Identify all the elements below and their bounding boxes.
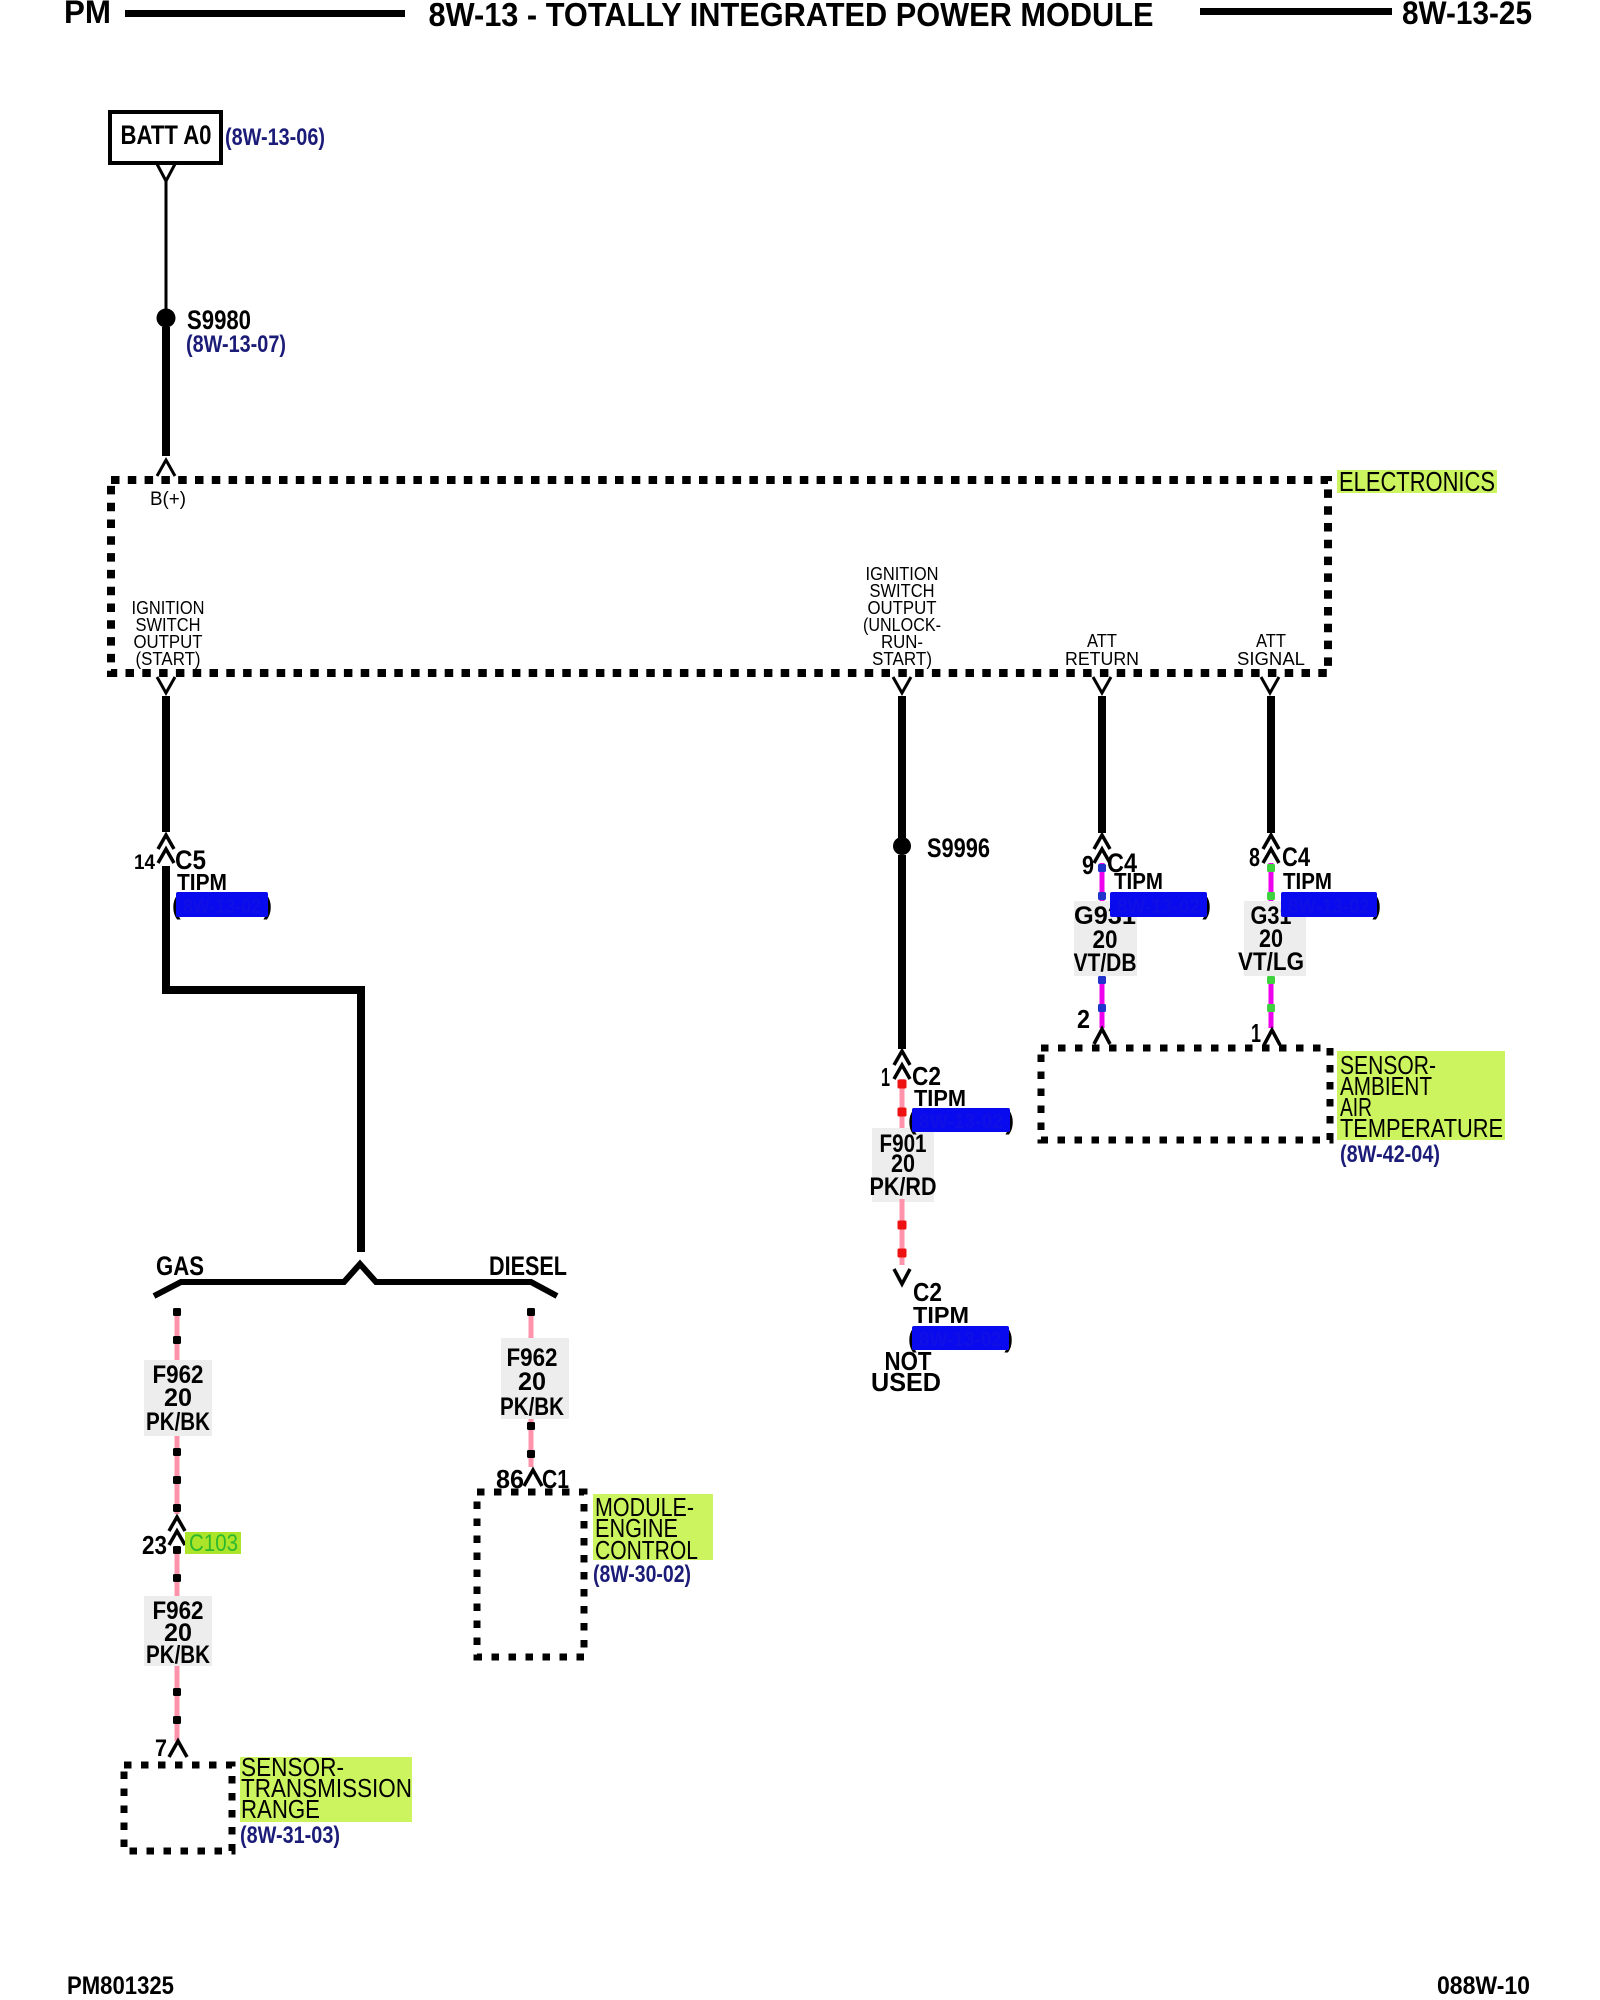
svg-text:1: 1 [881,1062,890,1092]
svg-text:8W-13 - TOTALLY INTEGRATED POW: 8W-13 - TOTALLY INTEGRATED POWER MODULE [429,0,1154,33]
svg-text:PK/BK: PK/BK [146,1408,210,1436]
svg-text:PK/RD: PK/RD [870,1173,937,1201]
svg-text:RETURN: RETURN [1065,649,1139,669]
svg-text:ELECTRONICS: ELECTRONICS [1339,466,1495,497]
svg-text:TEMPERATURE: TEMPERATURE [1340,1113,1503,1143]
svg-text:(8W-30-02): (8W-30-02) [593,1561,691,1588]
svg-text:START): START) [872,649,932,669]
svg-text:TIPM: TIPM [177,869,227,895]
svg-text:PM801325: PM801325 [67,1972,174,2000]
svg-text:7: 7 [155,1735,167,1762]
svg-text:ATT: ATT [1087,631,1117,651]
svg-text:8: 8 [1249,842,1260,872]
svg-text:BATT A0: BATT A0 [121,120,212,150]
svg-text:TIPM: TIPM [1114,868,1163,894]
svg-text:TIPM: TIPM [1283,868,1332,894]
svg-text:14: 14 [134,851,155,874]
svg-text:USED: USED [871,1367,941,1397]
svg-text:8W-13-02: 8W-13-02 [919,1329,1002,1351]
svg-text:RANGE: RANGE [241,1794,320,1824]
svg-text:8W-13-02: 8W-13-02 [919,1111,1003,1133]
svg-text:PK/BK: PK/BK [146,1641,210,1669]
svg-text:8W-13-25: 8W-13-25 [1402,0,1532,31]
svg-text:S9996: S9996 [927,833,990,863]
svg-text:(8W-42-04): (8W-42-04) [1340,1141,1440,1168]
svg-text:C103: C103 [189,1530,238,1557]
svg-text:2: 2 [1077,1004,1090,1034]
svg-text:VT/LG: VT/LG [1238,948,1304,976]
svg-text:(8W-31-03): (8W-31-03) [240,1822,340,1849]
svg-text:PM: PM [64,0,111,30]
svg-text:TIPM: TIPM [914,1085,966,1111]
svg-text:8W-13-02: 8W-13-02 [1117,896,1200,918]
svg-text:ATT: ATT [1256,631,1286,651]
svg-text:VT/DB: VT/DB [1074,949,1137,977]
svg-text:(8W-13-07): (8W-13-07) [186,331,286,358]
svg-text:PK/BK: PK/BK [500,1393,564,1421]
svg-text:8W-13-02: 8W-13-02 [1288,896,1370,918]
svg-text:20: 20 [518,1368,546,1396]
svg-text:23: 23 [142,1530,167,1560]
svg-text:8W-13-02: 8W-13-02 [183,896,261,918]
svg-text:GAS: GAS [156,1251,204,1281]
svg-text:SIGNAL: SIGNAL [1237,649,1305,669]
svg-text:(8W-13-06): (8W-13-06) [225,124,325,151]
svg-text:088W-10: 088W-10 [1437,1972,1530,2000]
svg-text:(START): (START) [136,649,201,669]
svg-text:9: 9 [1082,850,1094,880]
svg-text:B(+): B(+) [150,489,186,510]
svg-text:DIESEL: DIESEL [489,1251,567,1281]
svg-text:1: 1 [1251,1018,1261,1048]
svg-text:TIPM: TIPM [913,1302,969,1328]
